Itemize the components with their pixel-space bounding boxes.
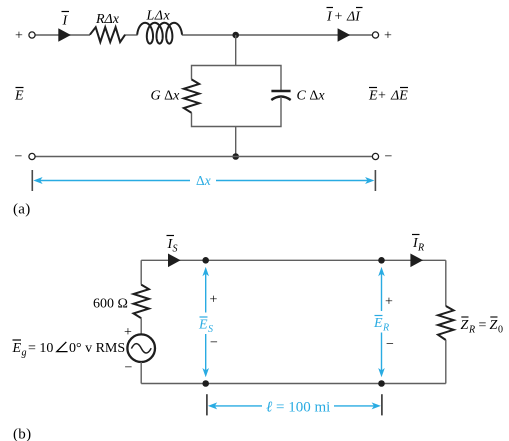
svg-text:R: R (468, 325, 475, 336)
svg-text:Z: Z (490, 318, 498, 333)
svg-text:−: − (210, 336, 218, 351)
resistor 600 ohm (b) (134, 285, 149, 319)
svg-text:ΔI: ΔI (346, 10, 361, 25)
angle symbol (57, 342, 68, 352)
dimension tick right (a) (374, 170, 376, 191)
svg-text:+: + (210, 293, 218, 308)
svg-text:I: I (326, 10, 333, 25)
current arrow I+dI (a) (338, 28, 351, 42)
svg-text:E: E (198, 318, 208, 333)
svg-text:−: − (385, 150, 393, 165)
wire between resistor and inductor (a) (125, 34, 138, 36)
svg-text:E: E (14, 89, 24, 104)
node A junction dot (a) (232, 32, 239, 39)
wire source to bottom (b) (140, 362, 142, 384)
source V1 circle (b) (127, 334, 155, 362)
source sine wave (b) (131, 344, 151, 353)
wire right branch top (b) (445, 260, 447, 306)
node R top junction dot (b) (378, 257, 385, 264)
svg-text:E: E (368, 89, 378, 104)
voltage marker Er cyan line (b) (381, 274, 383, 312)
svg-text:(a): (a) (13, 202, 31, 218)
current arrow I (a) (58, 28, 71, 42)
capacitor C delta x (a) (271, 90, 290, 92)
svg-text:E: E (12, 341, 22, 356)
svg-text:ΔE: ΔE (390, 89, 408, 104)
svg-text:+: + (335, 10, 343, 25)
wire node A to right terminal (a) (236, 34, 373, 36)
dimension tick left (a) (31, 170, 33, 191)
svg-text:Δx: Δx (196, 173, 211, 188)
wire bottom (b) (141, 383, 446, 385)
svg-text:−: − (15, 150, 23, 165)
svg-text:R: R (417, 243, 424, 254)
node bottom junction dot (a) (232, 153, 239, 160)
conductance G delta x resistor (a) (184, 79, 199, 112)
svg-text:−: − (125, 361, 133, 376)
svg-text:E: E (373, 316, 383, 331)
current arrow Ir (b) (410, 254, 423, 268)
node S bottom junction dot (b) (202, 380, 209, 387)
svg-text:−: − (386, 337, 394, 352)
svg-text:= 10: = 10 (28, 341, 53, 356)
svg-text:+: + (385, 295, 393, 310)
svg-text:0: 0 (498, 325, 503, 336)
dimension arrow line delta-x (a) (40, 180, 191, 182)
svg-text:S: S (173, 244, 178, 255)
wire top-left segment (a) (36, 34, 91, 36)
wire shunt stem top (a) (235, 35, 237, 66)
voltage marker Es cyan line (b) (205, 274, 207, 313)
svg-text:+: + (378, 89, 386, 104)
wire right branch bottom (b) (445, 340, 447, 384)
wire shunt box top (a) (192, 66, 282, 91)
dimension tick left (b) (206, 394, 208, 415)
inductor LDx (a) (137, 23, 182, 44)
terminal - right open circle bottom (a) (372, 153, 378, 159)
svg-text:Z: Z (461, 318, 469, 333)
terminal - left open circle bottom (a) (29, 153, 35, 159)
dimension tick right (b) (381, 394, 383, 415)
dimension arrow line l=100mi (b) (214, 405, 262, 407)
svg-text:ℓ = 100 mi: ℓ = 100 mi (266, 400, 330, 416)
terminal right open circle top (a) (372, 32, 378, 38)
resistor ZR (b) (438, 306, 454, 340)
svg-text:LΔx: LΔx (146, 9, 171, 24)
node R bottom junction dot (b) (378, 380, 385, 387)
wire shunt stem bottom (a) (235, 127, 237, 157)
svg-text:RΔx: RΔx (95, 12, 120, 27)
current arrow Is (b) (168, 254, 181, 268)
svg-text:S: S (208, 324, 213, 335)
svg-text:=: = (479, 318, 487, 333)
wire left branch (b) (140, 260, 142, 284)
svg-text:(b): (b) (13, 427, 31, 441)
wire top (b) (141, 259, 446, 261)
wire resistor to source (b) (140, 318, 142, 334)
wire inductor to node A (a) (182, 34, 236, 36)
terminal + left open circle (a) (29, 32, 35, 38)
svg-text:+: + (15, 29, 23, 44)
svg-text:R: R (382, 323, 389, 334)
svg-text:600 Ω: 600 Ω (93, 297, 128, 312)
svg-text:G Δx: G Δx (151, 89, 181, 104)
svg-text:I: I (62, 14, 69, 29)
resistor RDx (a) (90, 27, 125, 42)
wire shunt box bottom (a) (192, 97, 282, 127)
svg-text:+: + (384, 29, 392, 44)
svg-text:0° v RMS: 0° v RMS (69, 341, 125, 356)
node S top junction dot (b) (202, 257, 209, 264)
svg-text:C Δx: C Δx (297, 88, 326, 103)
svg-text:+: + (124, 325, 132, 340)
svg-text:g: g (22, 348, 27, 359)
wire bottom (a) (35, 156, 372, 158)
